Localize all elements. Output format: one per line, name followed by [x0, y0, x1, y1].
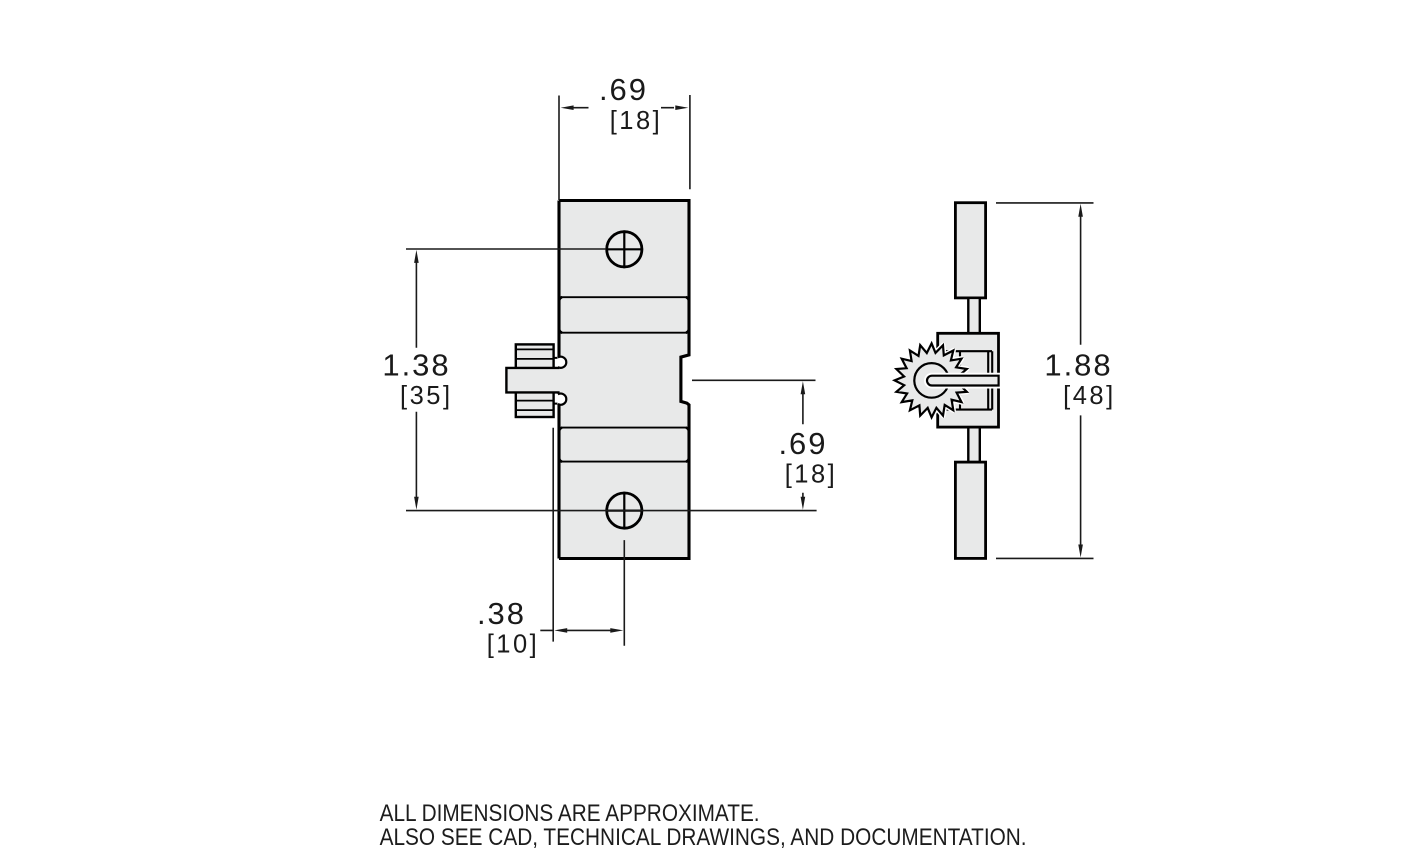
band corner nibs [559, 297, 689, 461]
thumbwheel front view rim [516, 344, 554, 417]
thumbwheel hub circle side view [914, 363, 949, 398]
dim .38 dimension line [540, 629, 611, 631]
svg-text:[35]: [35] [400, 382, 453, 410]
thumbwheel serration lines [516, 349, 554, 410]
svg-text:ALL DIMENSIONS ARE APPROXIMATE: ALL DIMENSIONS ARE APPROXIMATE. [380, 800, 760, 827]
dim 1.88 extension lines [996, 203, 1094, 559]
dim 1.38 arrowheads [414, 250, 419, 510]
housing inner bracket lines [943, 351, 992, 409]
svg-text:[18]: [18] [785, 461, 838, 489]
side view top block [955, 203, 985, 298]
serrated thumbwheel side view halo [895, 343, 969, 417]
dim 1.88 arrowheads [1078, 204, 1083, 558]
division line band2 top [562, 427, 687, 429]
svg-text:ALSO SEE CAD, TECHNICAL DRAWIN: ALSO SEE CAD, TECHNICAL DRAWINGS, AND DO… [380, 824, 1027, 851]
svg-text:.38: .38 [477, 596, 526, 631]
side view housing [938, 333, 999, 427]
svg-text:1.88: 1.88 [1044, 348, 1112, 383]
side view top stem [968, 298, 980, 333]
division line band1 top [562, 296, 687, 298]
bottom mounting hole [607, 493, 642, 528]
dim .69 top extension lines [559, 95, 690, 200]
dim 1.38 dimension line [415, 260, 417, 499]
thumbwheel hub front view [506, 368, 559, 393]
dim .69 right dimension line [802, 393, 804, 498]
division line band1 bottom [562, 332, 687, 334]
division line band2 bottom [562, 461, 687, 463]
dim .69 top dimension line [572, 107, 674, 109]
dim .69 top arrowheads [561, 105, 689, 110]
dim .38 arrowheads [554, 628, 623, 633]
svg-text:.69: .69 [778, 426, 827, 461]
thumbwheel relief top arc [558, 357, 566, 368]
svg-text:.69: .69 [599, 72, 648, 107]
axle bar [927, 376, 999, 386]
dim 1.88 dimension line [1080, 214, 1082, 547]
dim .38 extension lines [553, 428, 624, 646]
svg-text:1.38: 1.38 [382, 348, 450, 383]
top mounting hole [607, 232, 642, 267]
svg-text:[10]: [10] [487, 631, 540, 659]
svg-text:[48]: [48] [1063, 382, 1116, 410]
front view body fill [559, 201, 689, 559]
side view bottom block [955, 462, 985, 558]
axle bar halo [927, 376, 999, 386]
dim .69 right extension line [692, 379, 816, 381]
dim 1.38 extension lines [406, 249, 817, 511]
svg-text:[18]: [18] [610, 107, 663, 135]
dim .69 right arrowheads [801, 381, 806, 510]
thumbwheel relief bottom arc [558, 394, 566, 405]
thumbwheel step lines [554, 358, 558, 404]
serrated thumbwheel side view [895, 343, 969, 417]
front view body outline [559, 201, 689, 559]
side view bottom stem [968, 427, 980, 462]
